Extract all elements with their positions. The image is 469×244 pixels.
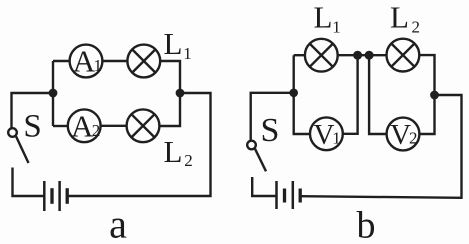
switch S (circuit b): blade xyxy=(255,149,266,172)
svg-text:S: S xyxy=(23,109,41,145)
lamp L1 (circuit a) xyxy=(127,45,160,78)
wire: circuit a left rail vertical xyxy=(52,61,54,126)
wire: circuit b lamp L2 right corner down to node xyxy=(419,55,434,134)
battery (circuit b): plate short 1 xyxy=(283,189,286,203)
svg-text:A: A xyxy=(71,108,94,143)
battery (circuit a): plate long 1 xyxy=(43,181,46,211)
wire: V2 left jog up to top node xyxy=(369,55,387,134)
svg-text:1: 1 xyxy=(332,18,341,37)
wire: between A1 and lamp L1 xyxy=(102,60,127,62)
node: circuit b top middle junction dot 2 xyxy=(365,51,374,60)
battery (circuit a): plate short 2 xyxy=(66,188,69,204)
lamp L1 (circuit b) xyxy=(305,39,338,72)
voltmeter V1 xyxy=(310,117,343,151)
svg-text:1: 1 xyxy=(183,44,192,63)
switch S (circuit b): pivot circle xyxy=(247,141,256,150)
wire: circuit a junction to switch xyxy=(12,93,54,128)
switch S (circuit a): pivot circle xyxy=(8,128,17,137)
svg-text:b: b xyxy=(357,205,376,244)
node: circuit a right junction xyxy=(176,89,185,98)
svg-text:1: 1 xyxy=(94,56,103,75)
svg-text:2: 2 xyxy=(184,151,193,170)
ammeter A2 xyxy=(68,108,101,143)
battery (circuit b): plate short 2 xyxy=(299,189,302,203)
ammeter A1 xyxy=(70,44,103,79)
wire: circuit a right rail (top corner to bottom corner) xyxy=(159,61,180,126)
node: circuit b right junction xyxy=(430,91,439,100)
wire: circuit b left rail (top corner down to V1 left) xyxy=(294,55,310,134)
label L2 (circuit a) xyxy=(164,134,193,170)
wire: circuit a top branch left stub xyxy=(53,60,70,62)
svg-text:L: L xyxy=(164,134,183,169)
wire: circuit b top stub to lamp L1 xyxy=(294,54,305,56)
svg-text:L: L xyxy=(314,0,333,35)
battery (circuit a): plate short 1 xyxy=(50,188,53,204)
battery (circuit a): plate long 2 xyxy=(58,181,61,211)
wire: circuit b lower-left to battery xyxy=(252,177,276,196)
svg-text:S: S xyxy=(261,112,280,149)
label L2 (circuit b) xyxy=(390,0,420,37)
wire: circuit a bottom branch left stub xyxy=(53,125,68,127)
wire: circuit b top middle between lamps xyxy=(338,54,386,56)
battery (circuit b): plate long 1 xyxy=(275,181,278,209)
svg-text:2: 2 xyxy=(412,18,421,37)
label L1 (circuit b) xyxy=(314,0,341,37)
label L1 (circuit a) xyxy=(164,26,192,63)
wire: between A2 and lamp L2 xyxy=(101,125,127,127)
voltmeter V2 xyxy=(387,118,420,152)
node: circuit b left junction xyxy=(289,89,298,98)
svg-text:L: L xyxy=(390,0,409,35)
lamp L2 (circuit a) xyxy=(127,109,160,142)
svg-text:2: 2 xyxy=(92,121,101,140)
node: circuit a left junction xyxy=(49,89,58,98)
svg-text:1: 1 xyxy=(332,129,341,148)
battery (circuit b): plate long 2 xyxy=(292,181,295,209)
wire: V1 right jog up to top node xyxy=(343,55,358,134)
svg-text:2: 2 xyxy=(409,129,418,148)
lamp L2 (circuit b) xyxy=(387,39,420,72)
svg-text:L: L xyxy=(164,26,183,61)
wire: circuit a bottom and right outer rail xyxy=(67,93,210,196)
wire: circuit b junction to switch xyxy=(251,93,294,141)
wire: circuit b bottom and right outer rail xyxy=(300,95,461,198)
svg-text:A: A xyxy=(73,44,96,79)
wire: circuit a lower-left to battery xyxy=(13,168,45,197)
node: circuit b top middle junction dot 1 xyxy=(353,51,362,60)
svg-text:a: a xyxy=(109,202,127,244)
switch S (circuit a): blade xyxy=(16,136,29,163)
